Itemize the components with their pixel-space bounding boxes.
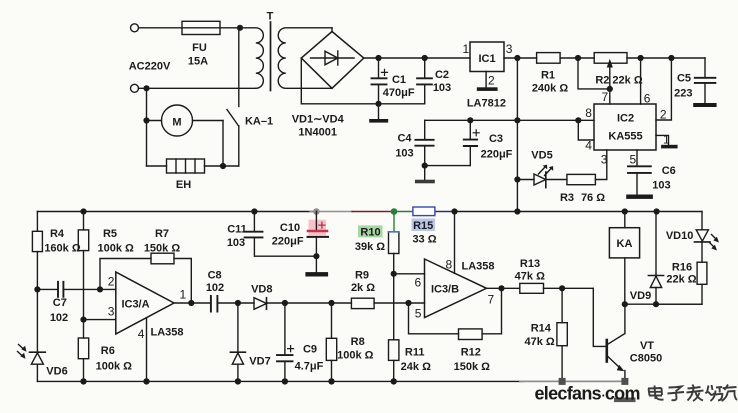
node C3 top — [467, 117, 473, 123]
fuse FU 15A — [182, 21, 220, 34]
watermark chinese char you — [722, 385, 738, 402]
svg-text:C10: C10 — [280, 222, 300, 234]
svg-text:2: 2 — [488, 74, 495, 88]
resistor R3 76 — [567, 174, 596, 184]
resistor R4 160k — [32, 212, 42, 353]
capacitor C6 103 — [628, 166, 651, 194]
svg-text:C9: C9 — [303, 344, 317, 356]
label C2 103 — [433, 69, 451, 94]
wire pin6 — [394, 273, 425, 275]
svg-text:3: 3 — [506, 42, 513, 56]
resistor R15 33 (blue watermark) — [413, 207, 435, 216]
svg-text:IC3/B: IC3/B — [431, 284, 459, 296]
capacitor C7 102 — [37, 282, 100, 297]
label R14 47k — [524, 323, 554, 349]
wire pin 4 — [578, 120, 594, 140]
timer IC2 KA555 — [594, 104, 656, 150]
svg-text:100k Ω: 100k Ω — [337, 350, 374, 362]
ground (below C10) — [305, 256, 328, 276]
wire — [146, 88, 148, 166]
node C1 top — [375, 55, 381, 61]
node R14 bottom (gray) — [559, 378, 566, 385]
label C4 103 — [395, 133, 413, 160]
svg-text:24k Ω: 24k Ω — [401, 361, 431, 373]
label pin 2 — [660, 108, 667, 122]
svg-text:R4: R4 — [50, 228, 65, 240]
label C9 4.7uF — [295, 344, 324, 373]
label VD7 — [249, 356, 270, 368]
svg-text:C3: C3 — [489, 133, 503, 145]
svg-text:R5: R5 — [103, 228, 117, 240]
transformer T core — [270, 22, 272, 91]
label KA-1 — [245, 116, 273, 128]
node output B junction — [498, 285, 504, 291]
resistor R16 22k — [656, 242, 707, 304]
svg-text:R2 22k Ω: R2 22k Ω — [595, 75, 643, 87]
label pin 8 — [585, 106, 592, 120]
svg-text:240k Ω: 240k Ω — [532, 83, 569, 95]
wire DC- rail — [301, 58, 424, 104]
node IC1 out junction — [514, 55, 520, 61]
potentiometer R2 22k — [578, 53, 627, 89]
node C1 bottom — [375, 101, 381, 107]
label pin 3 — [601, 153, 608, 167]
svg-text:103: 103 — [433, 82, 451, 94]
node R5 top — [80, 208, 86, 214]
svg-text:VD7: VD7 — [249, 356, 270, 368]
svg-text:VD1∼VD4: VD1∼VD4 — [292, 114, 345, 126]
svg-text:223: 223 — [674, 88, 692, 100]
svg-text:LA358: LA358 — [150, 327, 183, 339]
wire — [331, 28, 333, 32]
label IC1 pins — [463, 42, 513, 110]
label R15 33 highlighted — [412, 219, 437, 246]
svg-text:150k Ω: 150k Ω — [144, 243, 181, 255]
label R8 100k — [337, 336, 374, 362]
relay coil KA — [609, 212, 639, 305]
node C7 left junction — [34, 286, 40, 292]
wire pin5 stub — [409, 302, 425, 304]
svg-text:KA555: KA555 — [608, 131, 642, 143]
svg-text:103: 103 — [652, 180, 670, 192]
node pin5 junction — [405, 300, 411, 306]
transistor VT C8050 — [607, 304, 625, 381]
resistor R8 100k — [326, 303, 336, 381]
node R11 bottom — [391, 378, 397, 384]
svg-text:VD9: VD9 — [630, 290, 651, 302]
label C6 103 — [652, 165, 675, 192]
node VD9 bottom junction — [653, 301, 659, 307]
wire pin 2 — [656, 58, 671, 120]
capacitor C10 220uF (pink watermark) — [308, 212, 329, 257]
svg-text:220μF: 220μF — [272, 236, 304, 248]
label C11 103 — [227, 224, 247, 250]
wire pin 3 — [595, 150, 606, 180]
capacitor C3 220uF — [464, 120, 479, 165]
label C3 220uF — [481, 133, 513, 161]
svg-text:47k Ω: 47k Ω — [515, 271, 545, 283]
svg-text:R10: R10 — [360, 227, 380, 239]
diode VD9 — [648, 212, 663, 305]
node R6 bottom — [80, 378, 86, 384]
watermark underline bar — [614, 398, 636, 403]
node pin2 junction — [97, 286, 103, 292]
node pin8-4 junction — [575, 117, 581, 123]
regulator IC1 LA7812 — [470, 42, 504, 91]
node pin4 bottom — [143, 378, 149, 384]
svg-text:KA: KA — [617, 238, 633, 250]
resistor R11 24k — [389, 274, 399, 382]
12V rail of control section — [37, 211, 702, 213]
label pin 6 — [644, 92, 651, 106]
capacitor C4 103 — [415, 120, 470, 165]
motor M — [147, 105, 224, 136]
label R3 76 — [560, 192, 605, 204]
svg-text:elecfans.com: elecfans.com — [535, 384, 640, 404]
node R1-R2 junction — [575, 55, 581, 61]
node C9 top junction — [282, 300, 288, 306]
label pin 7 — [602, 90, 609, 104]
svg-text:102: 102 — [206, 282, 224, 294]
node R8 top junction — [328, 300, 334, 306]
wire output B — [487, 287, 520, 289]
svg-text:100k Ω: 100k Ω — [96, 361, 133, 373]
node collector junction — [622, 301, 628, 307]
node 12V drop — [514, 208, 520, 214]
label R1 240k — [532, 70, 569, 95]
capacitor C5 223 — [695, 58, 716, 103]
photodiode VD6 — [18, 345, 46, 382]
label C8 102 — [206, 270, 224, 295]
label R2 22k — [595, 75, 643, 87]
svg-text:39k Ω: 39k Ω — [355, 241, 385, 253]
ground (below C5) — [693, 103, 716, 107]
wire pin 5 — [636, 150, 638, 166]
label VT C8050 — [630, 340, 662, 365]
svg-text:22k Ω: 22k Ω — [666, 274, 696, 286]
svg-text:C11: C11 — [227, 224, 247, 236]
node R14 top junction — [559, 285, 565, 291]
node R10 top (green) — [391, 208, 398, 215]
svg-text:R9: R9 — [355, 270, 369, 282]
svg-text:2: 2 — [660, 108, 667, 122]
node fuse-transformer junction — [237, 25, 243, 31]
node VD9 top — [654, 208, 660, 214]
node KA top — [622, 208, 628, 214]
node motor feed junction — [143, 117, 149, 123]
svg-text:KA–1: KA–1 — [245, 116, 273, 128]
label C5 223 — [674, 73, 692, 100]
wire pin3 — [84, 319, 116, 321]
svg-text:R6: R6 — [101, 345, 115, 357]
svg-text:R12: R12 — [461, 347, 481, 359]
svg-text:AC220V: AC220V — [129, 61, 171, 73]
svg-text:3: 3 — [601, 153, 608, 167]
wire — [627, 57, 705, 59]
svg-text:IC2: IC2 — [617, 113, 634, 125]
wire pin2 stub — [100, 288, 116, 290]
wire to base — [593, 288, 606, 346]
label KA — [617, 238, 633, 250]
svg-text:4: 4 — [585, 139, 592, 153]
node motor branch junction — [143, 85, 149, 91]
label C7 102 — [50, 297, 68, 324]
capacitor C8 102 — [211, 296, 254, 312]
svg-text:R8: R8 — [351, 336, 365, 348]
svg-text:7: 7 — [602, 90, 609, 104]
node VD7 top junction — [235, 300, 241, 306]
label C1 470uF — [383, 74, 415, 99]
label R6 100k — [96, 345, 133, 373]
svg-text:1: 1 — [663, 133, 670, 147]
svg-text:470μF: 470μF — [383, 87, 415, 99]
wire DC+ rail — [364, 57, 470, 59]
node emitter bottom (gray) — [621, 378, 628, 385]
ground (below C1) — [369, 104, 388, 123]
node pin6 junction — [638, 55, 644, 61]
node pin3-R5R6 junction — [80, 317, 86, 323]
resistor R12 150k feedback — [409, 288, 502, 339]
svg-text:103: 103 — [227, 237, 245, 249]
diode VD7 — [230, 303, 245, 381]
node C4-C3 bottom junction — [422, 163, 428, 169]
wire pin 7 — [609, 89, 611, 104]
label R13 47k — [515, 258, 545, 283]
svg-text:VT: VT — [640, 340, 654, 352]
svg-text:8: 8 — [446, 258, 453, 272]
terminal J1 (AC line top) — [131, 24, 139, 32]
label M — [172, 117, 181, 129]
wire — [139, 27, 241, 29]
svg-text:C2: C2 — [435, 69, 449, 81]
node pin2 junction — [668, 55, 674, 61]
watermark chinese char zi — [668, 387, 685, 401]
label VD10 — [666, 230, 694, 242]
label VD6 — [46, 366, 67, 378]
wire main 12V vertical — [516, 58, 518, 212]
svg-text:VD6: VD6 — [46, 366, 67, 378]
svg-text:VD10: VD10 — [666, 230, 694, 242]
transformer T primary winding — [240, 28, 263, 89]
svg-text:M: M — [172, 117, 181, 129]
svg-text:IC3/A: IC3/A — [121, 299, 149, 311]
svg-text:1: 1 — [463, 42, 470, 56]
node EH-switch junction — [220, 163, 226, 169]
label R5 100k — [98, 228, 135, 255]
bridge rectifier VD1-VD4 — [301, 32, 364, 89]
svg-text:LA358: LA358 — [461, 261, 494, 273]
capacitor C9 4.7uF — [277, 303, 294, 381]
label EH — [176, 179, 191, 191]
ground (below C6) — [626, 195, 653, 199]
12V rail — [425, 119, 579, 121]
label VD5 — [531, 150, 552, 162]
svg-text:R1: R1 — [541, 70, 555, 82]
svg-text:150k Ω: 150k Ω — [454, 361, 491, 373]
svg-text:IC1: IC1 — [478, 53, 495, 65]
label R7 150k — [144, 228, 181, 255]
label R11 24k — [401, 347, 431, 374]
label R12 150k — [454, 347, 491, 374]
label FU 15A — [188, 42, 208, 68]
svg-text:8: 8 — [585, 106, 592, 120]
label R16 22k — [666, 262, 696, 286]
node VD5 junction — [514, 176, 520, 182]
label IC3/B pins — [415, 258, 495, 321]
wire pin 1 + ground — [656, 135, 678, 148]
watermark chinese char dian — [648, 386, 664, 400]
svg-text:R3: R3 — [560, 192, 574, 204]
terminal J2 (AC line bottom) — [131, 84, 139, 92]
svg-text:2: 2 — [108, 275, 115, 289]
node C9 bottom — [282, 378, 288, 384]
svg-text:C4: C4 — [397, 133, 412, 145]
svg-text:5: 5 — [415, 307, 422, 321]
resistor R7 150k feedback — [100, 253, 191, 303]
transformer T secondary winding — [278, 28, 332, 89]
svg-text:C8050: C8050 — [630, 353, 662, 365]
svg-text:103: 103 — [395, 148, 413, 160]
svg-text:C6: C6 — [662, 165, 676, 177]
node C10 top (gray) — [313, 208, 320, 215]
resistor R6 100k — [78, 320, 88, 382]
node main vertical 12V — [514, 117, 520, 123]
node C11 top — [251, 208, 257, 214]
label IC3/A pins — [108, 275, 187, 342]
op-amp IC3/B — [425, 212, 487, 318]
svg-text:FU: FU — [192, 42, 207, 54]
capacitor C2 103 — [417, 58, 432, 104]
svg-text:2k Ω: 2k Ω — [351, 282, 375, 294]
node pin6 junction — [391, 271, 397, 277]
label C10 220uF — [272, 222, 304, 248]
svg-text:C7: C7 — [53, 297, 67, 309]
svg-text:160k Ω: 160k Ω — [44, 243, 81, 255]
op-amp IC3/A — [116, 272, 174, 381]
svg-text:7: 7 — [488, 293, 495, 307]
wire pin 6 — [640, 58, 642, 104]
capacitor C1 470uF — [372, 58, 388, 104]
svg-text:4: 4 — [138, 327, 145, 341]
wire — [139, 87, 256, 89]
ground (below C4) — [415, 166, 435, 184]
svg-text:4.7μF: 4.7μF — [295, 361, 324, 373]
label pin 5 — [630, 153, 637, 167]
node R2 wiper junction — [607, 86, 613, 92]
heater EH — [147, 159, 239, 173]
LED VD10 — [695, 212, 720, 251]
node R8 bottom — [328, 378, 334, 384]
svg-text:T: T — [267, 11, 274, 23]
label R4 160k — [44, 228, 81, 255]
watermark chinese char fa — [687, 385, 704, 402]
node opampB pin8 top — [451, 208, 457, 214]
wire — [504, 57, 537, 59]
svg-text:VD5: VD5 — [531, 150, 552, 162]
svg-text:15A: 15A — [188, 56, 208, 68]
resistor R10 39k — [389, 212, 399, 274]
watermark chinese char shao — [706, 385, 723, 401]
wire relay bottom — [625, 303, 702, 305]
svg-text:1N4001: 1N4001 — [298, 127, 337, 139]
wire pin 8 — [578, 119, 594, 121]
svg-text:VD8: VD8 — [251, 284, 272, 296]
resistor R9 2k — [351, 298, 408, 308]
resistor R1 240k — [537, 53, 561, 64]
label R10 39k highlighted — [355, 225, 385, 253]
svg-text:3: 3 — [108, 305, 115, 319]
node C10 bottom junction — [313, 253, 319, 259]
wire — [560, 57, 594, 59]
svg-text:C1: C1 — [392, 74, 406, 86]
svg-text:220μF: 220μF — [481, 149, 513, 161]
resistor R5 100k — [78, 212, 88, 320]
wire output A — [174, 302, 211, 304]
label VD8 — [251, 284, 272, 296]
svg-text:EH: EH — [176, 179, 191, 191]
label VD1~VD4 1N4001 — [292, 114, 345, 139]
label VD9 — [630, 290, 651, 302]
label pin 4 — [585, 139, 592, 153]
node VD7 bottom — [235, 378, 241, 384]
svg-text:R13: R13 — [520, 258, 540, 270]
svg-text:100k Ω: 100k Ω — [98, 243, 135, 255]
svg-text:6: 6 — [415, 276, 422, 290]
switch KA-1 — [227, 28, 239, 166]
svg-text:R7: R7 — [155, 228, 169, 240]
label pin 1 — [663, 133, 670, 147]
label R9 2k — [351, 270, 375, 295]
wire — [222, 121, 224, 167]
label T — [267, 11, 274, 23]
diode VD8 — [254, 298, 351, 310]
svg-text:33 Ω: 33 Ω — [412, 234, 436, 246]
ground rail bottom — [37, 380, 627, 382]
resistor R14 47k — [557, 288, 567, 381]
svg-text:R14: R14 — [531, 323, 552, 335]
node C2 top — [422, 55, 428, 61]
svg-text:LA7812: LA7812 — [467, 98, 506, 110]
svg-text:C5: C5 — [677, 73, 691, 85]
svg-text:76 Ω: 76 Ω — [581, 192, 605, 204]
svg-text:R15: R15 — [413, 220, 433, 232]
LED VD5 — [517, 165, 567, 188]
capacitor C11 103 — [245, 212, 317, 257]
svg-text:R16: R16 — [672, 262, 692, 274]
node output A junction — [188, 300, 194, 306]
svg-text:5: 5 — [630, 153, 637, 167]
svg-text:R11: R11 — [405, 347, 425, 359]
svg-text:102: 102 — [50, 312, 68, 324]
label AC220V — [129, 61, 171, 73]
svg-text:1: 1 — [180, 288, 187, 302]
svg-text:6: 6 — [644, 92, 651, 106]
svg-text:C8: C8 — [208, 270, 222, 282]
svg-text:47k Ω: 47k Ω — [524, 336, 554, 348]
label IC2 KA555 — [608, 113, 642, 143]
resistor R13 47k — [520, 283, 594, 293]
